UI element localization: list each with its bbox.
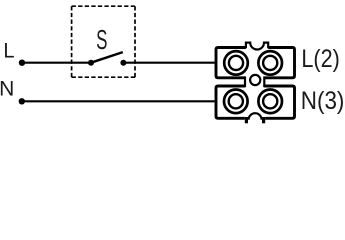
terminal block N(3) bottom clamp left foot	[245, 117, 248, 123]
terminal N(3) right screw outer	[258, 90, 282, 114]
terminal block N(3) bottom clamp right foot	[262, 117, 265, 123]
junction dot L	[19, 60, 25, 66]
terminal block N(3) outline	[216, 86, 295, 118]
terminal L(2) left screw outer	[224, 51, 248, 75]
inter-block latch circle	[250, 75, 260, 85]
svg-text:L(2): L(2)	[301, 45, 339, 73]
terminal L(2) right screw inner	[263, 56, 277, 70]
terminal N(3) left screw inner	[229, 94, 243, 108]
svg-text:N(3): N(3)	[301, 87, 345, 115]
svg-text:L: L	[3, 38, 14, 62]
terminal L(2) right screw outer	[258, 51, 282, 75]
svg-text:N: N	[0, 78, 14, 101]
svg-text:S: S	[96, 24, 107, 55]
inter-block right wall	[263, 76, 265, 87]
enclosure dashed box for switch S : bottom edge	[72, 76, 135, 78]
wire from switch to terminal block L(2)	[123, 62, 214, 64]
enclosure dashed box for switch S : top edge	[72, 5, 135, 7]
wire N to terminal block N(3)	[22, 100, 215, 102]
terminal L(2) left screw inner	[229, 56, 243, 70]
switch S left contact dot	[88, 60, 94, 66]
terminal block L(2) outline	[216, 48, 295, 78]
junction dot N	[19, 98, 25, 104]
enclosure dashed box for switch S : left edge	[71, 6, 73, 77]
enclosure dashed box for switch S : right edge	[134, 6, 136, 77]
terminal N(3) right screw inner	[263, 94, 277, 108]
terminal block N(3) bottom clamp arch	[249, 113, 262, 120]
switch S blade	[91, 52, 123, 63]
inter-block left wall	[244, 76, 246, 87]
terminal block L(2) top clamp notch	[246, 43, 268, 50]
switch S right contact dot	[120, 60, 126, 66]
wire L from node L to switch	[22, 62, 91, 64]
terminal N(3) left screw outer	[224, 90, 248, 114]
